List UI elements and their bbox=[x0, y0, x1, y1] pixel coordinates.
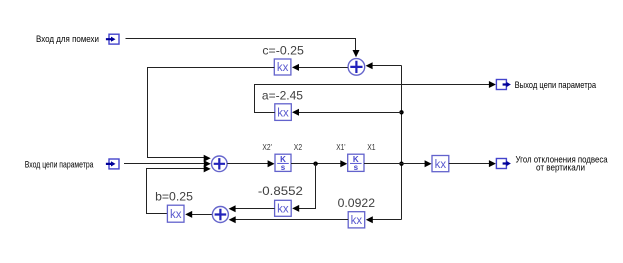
wire sum2 output to integrator X2 bbox=[227, 160, 274, 167]
gain -0.8552 block kx bbox=[275, 200, 292, 216]
svg-text:-0.8552: -0.8552 bbox=[258, 184, 303, 198]
wire branch into sum1 right bbox=[366, 62, 402, 69]
sum U5 (bottom summator) bbox=[212, 207, 228, 223]
svg-text:s: s bbox=[281, 163, 286, 172]
svg-text:Вход для помехи: Вход для помехи bbox=[36, 34, 99, 45]
wire In2 to sum2 middle input bbox=[124, 160, 211, 167]
inport In1 bbox=[106, 34, 119, 44]
svg-text:kx: kx bbox=[435, 159, 447, 171]
junction dot at (401.5,112.3) bbox=[399, 110, 403, 114]
outport Out1 bbox=[496, 80, 511, 90]
svg-text:0.0922: 0.0922 bbox=[338, 196, 376, 210]
wire integrator X2 output to integrator X1 bbox=[291, 160, 347, 167]
gain A block kx bbox=[275, 104, 292, 121]
svg-text:s: s bbox=[354, 163, 359, 172]
svg-text:X1: X1 bbox=[367, 143, 376, 152]
svg-text:b=0.25: b=0.25 bbox=[155, 190, 193, 204]
svg-text:от вертикали: от вертикали bbox=[536, 163, 585, 174]
wire branch to gain A input bbox=[292, 109, 402, 116]
gain OUT block kx bbox=[432, 156, 449, 172]
inport In2 bbox=[106, 159, 119, 169]
wire sum1 output to gain C bbox=[292, 64, 348, 71]
wire sum3 output to gain B input bbox=[185, 211, 212, 218]
sum U1 (top summator) bbox=[348, 59, 365, 76]
svg-text:Выход цепи параметра: Выход цепи параметра bbox=[515, 80, 597, 91]
gain C block kx bbox=[274, 59, 291, 75]
wire output gain to outport Out2 bbox=[449, 160, 496, 167]
integrator U3 K/s (X2) bbox=[275, 154, 291, 172]
wire gain -0.8552 output to sum3 upper-right input bbox=[229, 205, 275, 212]
wire gain 0.0922 output to sum3 lower-right input bbox=[229, 216, 349, 223]
wire gain B loop output into sum2 lower-left input bbox=[147, 165, 211, 213]
integrator U4 K/s (X1) bbox=[348, 154, 364, 172]
wire gain C output to sum2 upper-left input bbox=[148, 68, 275, 162]
svg-text:X2': X2' bbox=[262, 143, 272, 152]
svg-text:kx: kx bbox=[277, 204, 289, 216]
sum U2 (middle summator, three inputs) bbox=[212, 156, 228, 172]
svg-text:Вход цепи параметра: Вход цепи параметра bbox=[25, 160, 94, 171]
wire branch to gain 0.0922 input bbox=[366, 216, 402, 223]
gain B block kx bbox=[167, 205, 184, 222]
svg-text:X2: X2 bbox=[294, 143, 303, 152]
wire integrator X1 output to output gain bbox=[364, 160, 432, 167]
svg-text:kx: kx bbox=[351, 215, 363, 227]
svg-text:kx: kx bbox=[277, 107, 289, 119]
junction dot at (401.5,163.7) bbox=[399, 162, 403, 166]
svg-text:kx: kx bbox=[277, 62, 289, 74]
svg-text:X1': X1' bbox=[336, 143, 346, 152]
wire junction X2 down to gain -0.8552 input bbox=[292, 164, 315, 212]
wire In1 to sum1 top bbox=[126, 39, 360, 58]
outport Out2 bbox=[496, 159, 511, 169]
svg-text:a=-2.45: a=-2.45 bbox=[262, 88, 303, 102]
svg-text:c=-0.25: c=-0.25 bbox=[262, 43, 304, 57]
junction dot at (315.6,163.7) bbox=[313, 162, 317, 166]
gain 0.0922 block kx bbox=[348, 212, 365, 228]
svg-text:kx: kx bbox=[170, 209, 182, 221]
wire vertical feedback x=401.5 from sum1 to bottom branch bbox=[401, 66, 403, 220]
wire gain A output to outport Out1 bbox=[255, 81, 496, 113]
